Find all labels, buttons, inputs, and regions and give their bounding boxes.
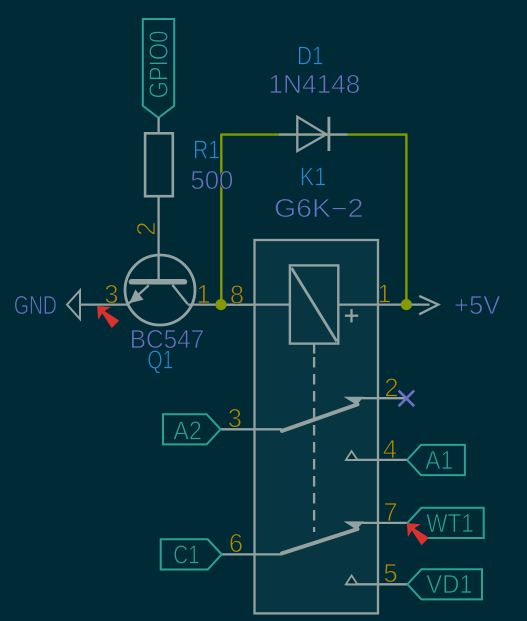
svg-text:C1: C1 xyxy=(173,541,199,569)
svg-text:2: 2 xyxy=(133,222,161,236)
wire xyxy=(157,118,159,134)
pin 3 xyxy=(221,405,282,433)
svg-text:7: 7 xyxy=(384,499,398,527)
resistor R1 xyxy=(145,133,173,280)
wire xyxy=(188,303,255,305)
wire xyxy=(405,135,407,305)
pin 5 xyxy=(346,560,408,588)
global label C1 xyxy=(161,539,222,569)
junction xyxy=(401,299,412,310)
pin 4 xyxy=(346,436,407,464)
switch 1 armature xyxy=(282,397,364,431)
relay K1 xyxy=(255,240,379,613)
pin 2 (NC) xyxy=(362,374,406,402)
wire xyxy=(220,135,222,305)
dashed actuator line xyxy=(313,357,315,532)
pin 7 xyxy=(362,499,407,527)
pin 8 xyxy=(221,281,255,309)
diode D1 xyxy=(279,117,348,151)
selection arrow 1 xyxy=(97,306,119,328)
svg-text:1: 1 xyxy=(377,281,391,309)
svg-text:1N4148: 1N4148 xyxy=(268,71,360,99)
global label WT1 xyxy=(407,508,483,538)
svg-text:+5V: +5V xyxy=(454,292,500,320)
no-connect X xyxy=(399,391,415,407)
relay coil xyxy=(255,265,378,353)
switch 2 armature xyxy=(282,521,364,553)
power GND xyxy=(14,290,80,320)
svg-text:8: 8 xyxy=(230,281,244,309)
svg-text:WT1: WT1 xyxy=(426,510,474,538)
svg-text:GPIO0: GPIO0 xyxy=(145,31,173,99)
svg-text:4: 4 xyxy=(383,436,397,464)
svg-text:GND: GND xyxy=(14,292,57,320)
svg-text:500: 500 xyxy=(190,167,233,195)
svg-text:5: 5 xyxy=(384,560,398,588)
wire xyxy=(80,303,128,305)
svg-text:VD1: VD1 xyxy=(426,571,472,599)
junction xyxy=(215,299,226,310)
svg-text:6: 6 xyxy=(229,530,243,558)
wire xyxy=(220,133,407,135)
svg-text:K1: K1 xyxy=(300,164,327,192)
transistor Q1 xyxy=(125,255,195,325)
power +5V xyxy=(412,292,501,320)
svg-text:A2: A2 xyxy=(173,417,202,445)
svg-text:A1: A1 xyxy=(425,447,453,475)
global label GPIO0 xyxy=(143,19,174,118)
svg-text:Q1: Q1 xyxy=(147,347,173,375)
svg-text:G6K−2: G6K−2 xyxy=(274,195,364,223)
svg-text:2: 2 xyxy=(384,374,398,402)
pin 1 (coil+) xyxy=(377,281,411,309)
selection arrow 2 xyxy=(407,523,429,545)
svg-text:3: 3 xyxy=(228,405,242,433)
svg-text:D1: D1 xyxy=(297,43,324,71)
svg-text:R1: R1 xyxy=(193,137,220,165)
global label A2 xyxy=(163,414,221,445)
global label VD1 xyxy=(407,569,482,599)
pin 6 xyxy=(222,530,282,558)
global label A1 xyxy=(407,445,465,475)
